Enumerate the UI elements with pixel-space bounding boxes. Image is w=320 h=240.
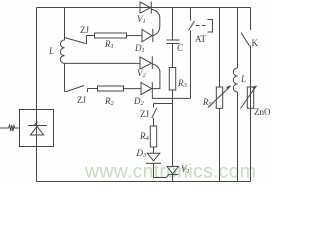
wire R1 to D1 [127, 35, 143, 37]
svg-text:R4: R4 [139, 131, 150, 142]
wire: feeder from top bus to ZJ1 junction [64, 8, 66, 38]
wire ZJ1 to R1 [87, 35, 95, 37]
wire: right bus upper [250, 8, 252, 31]
relay contact ZJ1 [65, 38, 86, 44]
svg-text:R1: R1 [104, 39, 114, 50]
svg-text:D2: D2 [133, 96, 145, 107]
rectifier box U [20, 110, 54, 147]
wire: right bus lower [250, 46, 252, 182]
svg-text:L: L [48, 46, 54, 56]
svg-text:ZJ: ZJ [77, 95, 86, 105]
svg-text:R2: R2 [104, 96, 115, 107]
svg-text:R3: R3 [177, 78, 188, 89]
capacitor C [167, 40, 180, 44]
resistor R3 [169, 68, 175, 91]
thyristor V1 on top bus [140, 2, 151, 13]
relay contact ZJ2 [65, 86, 85, 92]
resistor R2 [98, 86, 124, 91]
svg-text:www.cntronics.com: www.cntronics.com [84, 161, 256, 183]
svg-text:L: L [240, 74, 246, 84]
svg-text:ZJ: ZJ [140, 109, 149, 119]
contact AT [190, 8, 192, 21]
wire D3 to V3 gate [154, 163, 167, 177]
AT linkage bracket [208, 20, 213, 33]
wire: cathode bracket joining V2 and D2 [152, 64, 160, 89]
resistor R4 [150, 126, 156, 147]
svg-text:ZnO: ZnO [254, 107, 271, 117]
wire: top bus [37, 7, 251, 9]
wire: cathode bracket joining V1 and D1 [151, 9, 160, 36]
varistor ZnO [247, 87, 253, 108]
svg-text:V1: V1 [137, 14, 146, 25]
wire: column A (R5 branch) [219, 8, 221, 88]
resistor R1 [95, 33, 127, 38]
input zigzag lead [0, 125, 20, 131]
diode D2 [141, 83, 152, 95]
wire: coil line down to ZJ2 [64, 63, 66, 91]
wire: D2 cathode spur down to commutation rail [152, 95, 190, 99]
thyristor V2 [140, 57, 152, 69]
wire: left bus lower [36, 147, 38, 182]
wire ZJ2 to R2 [88, 88, 98, 90]
diode D3 [147, 153, 160, 161]
wire R4 to D3 [153, 147, 155, 153]
wire: ZJ3 branch top link [154, 103, 173, 105]
inductor L2 coil [233, 68, 237, 92]
wire: centre column top (bus to C) [172, 8, 174, 41]
inductor L1 coil [64, 38, 66, 41]
svg-text:R5: R5 [202, 97, 213, 108]
wire ZJ3 to R4 [153, 118, 155, 126]
wire: column B lower [237, 92, 239, 182]
svg-text:AT: AT [195, 34, 207, 44]
thyristor V3 [167, 166, 179, 174]
svg-text:V2: V2 [137, 68, 147, 79]
svg-text:D1: D1 [134, 43, 145, 54]
wire R2 to D2 [124, 88, 142, 90]
svg-text:K: K [252, 38, 259, 48]
rheostat R5 [216, 87, 222, 108]
wire: bottom bus [37, 181, 251, 183]
switch K blade [241, 33, 250, 47]
svg-text:D3: D3 [136, 148, 148, 159]
wire: centre column below R3 down to V3 [172, 90, 174, 166]
rectifier internal thyristor [36, 110, 38, 147]
wire C to R3 [172, 44, 174, 68]
wire: left bus upper [36, 8, 38, 110]
diode D1 [142, 30, 152, 42]
wire: column B upper [237, 8, 239, 69]
AT linkage dashed [196, 25, 207, 27]
wire V3 to bottom bus [172, 175, 174, 182]
svg-text:ZJ: ZJ [80, 25, 89, 35]
relay contact ZJ3 [153, 104, 155, 108]
svg-text:C: C [177, 43, 184, 53]
wire: row2 bus from coil to V2 [65, 62, 141, 64]
